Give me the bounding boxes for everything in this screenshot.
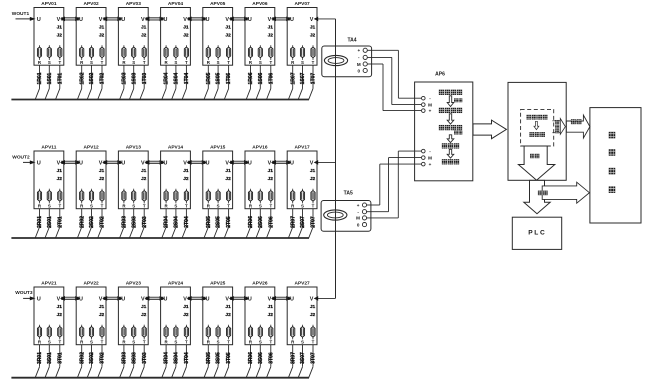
svg-text:J1: J1 [225,168,231,174]
svg-text:APV14: APV14 [168,145,184,151]
svg-text:3R04: 3R04 [164,352,170,364]
svg-text:V: V [225,17,229,23]
svg-text:T: T [312,60,315,65]
svg-text:1T07: 1T07 [311,73,317,85]
svg-text:J1: J1 [310,25,316,31]
svg-text:S: S [174,340,177,345]
svg-text:3T01: 3T01 [57,352,63,364]
svg-text:U: U [37,296,41,302]
svg-text:J1: J1 [183,25,189,31]
svg-text:1S05: 1S05 [216,72,222,84]
svg-text:T: T [185,204,188,209]
svg-text:M: M [428,155,432,160]
svg-text:3S01: 3S01 [47,352,53,364]
svg-text:APV15: APV15 [210,145,226,151]
svg-text:1S06: 1S06 [258,72,264,84]
svg-text:APV05: APV05 [210,1,226,7]
svg-text:2T05: 2T05 [226,216,232,228]
svg-text:T: T [101,204,104,209]
svg-text:S: S [48,60,51,65]
svg-text:0: 0 [357,222,360,227]
svg-text:J2: J2 [99,32,105,38]
svg-text:3T03: 3T03 [142,352,148,364]
svg-text:V: V [225,160,229,166]
svg-text:V: V [268,17,272,23]
svg-text:J2: J2 [268,312,274,318]
svg-text:2R06: 2R06 [248,216,254,228]
svg-text:S: S [301,60,304,65]
svg-text:3S03: 3S03 [131,352,137,364]
svg-text:2S03: 2S03 [131,216,137,228]
svg-text:T: T [312,340,315,345]
svg-text:J1: J1 [99,168,105,174]
svg-text:V: V [141,160,145,166]
svg-text:S: S [259,204,262,209]
svg-text:J1: J1 [141,25,147,31]
svg-text:J2: J2 [310,176,316,182]
svg-text:APV12: APV12 [83,145,99,151]
svg-text:3S05: 3S05 [216,352,222,364]
svg-text:1R03: 1R03 [122,72,128,84]
svg-text:3S06: 3S06 [258,352,264,364]
svg-text:+: + [429,108,432,113]
svg-text:T: T [312,204,315,209]
svg-text:3R05: 3R05 [206,352,212,364]
svg-text:1T02: 1T02 [100,73,106,85]
svg-text:J1: J1 [268,304,274,310]
svg-text:APV21: APV21 [41,281,57,287]
svg-text:U: U [79,160,83,166]
svg-text:U: U [163,17,167,23]
svg-text:APV22: APV22 [83,281,99,287]
svg-text:V: V [141,296,145,302]
svg-text:P L C: P L C [528,230,545,237]
svg-text:T: T [58,60,61,65]
svg-text:U: U [290,296,294,302]
svg-text:J2: J2 [141,312,147,318]
svg-text:T: T [227,204,230,209]
svg-text:2R04: 2R04 [164,216,170,228]
svg-text:V: V [310,17,314,23]
svg-text:J1: J1 [183,304,189,310]
svg-text:U: U [206,17,210,23]
svg-text:V: V [183,296,187,302]
svg-text:S: S [90,340,93,345]
svg-text:J2: J2 [268,176,274,182]
svg-text:APV16: APV16 [252,145,268,151]
svg-text:T: T [227,60,230,65]
svg-text:J1: J1 [57,168,63,174]
svg-text:J1: J1 [183,168,189,174]
svg-text:AP6: AP6 [435,72,445,78]
svg-text:APV13: APV13 [126,145,142,151]
svg-text:J1: J1 [310,304,316,310]
svg-text:J1: J1 [141,304,147,310]
svg-text:U: U [79,17,83,23]
svg-text:J1: J1 [268,25,274,31]
svg-text:APV23: APV23 [126,281,142,287]
svg-text:3T06: 3T06 [268,352,274,364]
svg-text:T: T [185,60,188,65]
svg-text:APV03: APV03 [126,1,142,7]
svg-text:J2: J2 [310,312,316,318]
svg-text:T: T [58,340,61,345]
svg-text:S: S [174,204,177,209]
svg-text:S: S [259,340,262,345]
svg-text:J2: J2 [183,312,189,318]
svg-text:J2: J2 [183,32,189,38]
svg-text:+: + [429,162,432,167]
svg-text:1S04: 1S04 [174,72,180,84]
svg-text:2R02: 2R02 [79,216,85,228]
svg-text:2T04: 2T04 [184,216,190,228]
svg-text:3T05: 3T05 [226,352,232,364]
svg-text:2S01: 2S01 [47,216,53,228]
svg-text:APV27: APV27 [294,281,310,287]
svg-text:APV01: APV01 [41,1,57,7]
svg-text:V: V [99,17,103,23]
svg-text:T: T [101,60,104,65]
svg-text:U: U [206,160,210,166]
svg-text:2R01: 2R01 [37,216,43,228]
svg-text:V: V [310,160,314,166]
svg-text:S: S [217,204,220,209]
svg-text:S: S [132,340,135,345]
svg-text:2S04: 2S04 [174,216,180,228]
svg-text:3R02: 3R02 [79,352,85,364]
svg-text:TA5: TA5 [344,191,353,197]
svg-text:U: U [290,17,294,23]
svg-text:V: V [57,160,61,166]
svg-text:3R06: 3R06 [248,352,254,364]
svg-text:3R07: 3R07 [290,352,296,364]
svg-text:+: + [357,203,360,208]
svg-text:S: S [217,340,220,345]
svg-text:WOUT1: WOUT1 [12,11,30,17]
svg-text:S: S [301,340,304,345]
svg-text:3T02: 3T02 [100,352,106,364]
svg-text:V: V [268,296,272,302]
svg-text:0: 0 [358,68,361,73]
svg-text:T: T [185,340,188,345]
svg-text:S: S [132,60,135,65]
svg-text:1T05: 1T05 [226,73,232,85]
svg-text:T: T [269,60,272,65]
svg-text:V: V [183,160,187,166]
svg-text:J1: J1 [99,304,105,310]
svg-text:1T01: 1T01 [57,73,63,85]
svg-text:S: S [132,204,135,209]
svg-text:1R04: 1R04 [164,72,170,84]
svg-text:1T04: 1T04 [184,73,190,85]
svg-text:U: U [248,160,252,166]
svg-text:U: U [290,160,294,166]
svg-text:2T07: 2T07 [311,216,317,228]
svg-text:APV26: APV26 [252,281,268,287]
svg-text:2S05: 2S05 [216,216,222,228]
svg-text:WOUT2: WOUT2 [12,155,30,161]
svg-text:J2: J2 [141,176,147,182]
svg-text:2R05: 2R05 [206,216,212,228]
svg-text:TA4: TA4 [347,38,356,44]
svg-text:V: V [57,296,61,302]
svg-text:T: T [101,340,104,345]
svg-text:V: V [57,17,61,23]
svg-text:V: V [99,296,103,302]
svg-text:V: V [141,17,145,23]
svg-text:U: U [121,296,125,302]
svg-text:3T04: 3T04 [184,352,190,364]
svg-text:3R01: 3R01 [37,352,43,364]
svg-text:T: T [143,204,146,209]
svg-text:J1: J1 [57,304,63,310]
svg-text:U: U [248,17,252,23]
svg-text:J2: J2 [99,312,105,318]
svg-text:U: U [37,160,41,166]
svg-text:APV02: APV02 [83,1,99,7]
svg-text:U: U [163,160,167,166]
svg-text:APV04: APV04 [168,1,184,7]
svg-text:V: V [310,296,314,302]
svg-text:U: U [121,17,125,23]
svg-text:J2: J2 [99,176,105,182]
svg-text:T: T [269,204,272,209]
svg-text:J1: J1 [225,304,231,310]
svg-text:2T03: 2T03 [142,216,148,228]
svg-text:U: U [79,296,83,302]
svg-text:S: S [90,60,93,65]
svg-text:T: T [143,60,146,65]
svg-text:2S06: 2S06 [258,216,264,228]
svg-text:J2: J2 [57,312,63,318]
svg-text:V: V [183,17,187,23]
svg-text:S: S [90,204,93,209]
svg-text:2R03: 2R03 [122,216,128,228]
svg-text:M: M [356,216,360,221]
svg-text:3S02: 3S02 [89,352,95,364]
svg-text:J1: J1 [225,25,231,31]
svg-text:J2: J2 [310,32,316,38]
svg-text:2T06: 2T06 [268,216,274,228]
svg-text:S: S [48,204,51,209]
svg-text:J1: J1 [310,168,316,174]
svg-text:APV24: APV24 [168,281,184,287]
svg-text:U: U [163,296,167,302]
svg-text:U: U [248,296,252,302]
svg-text:2R07: 2R07 [290,216,296,228]
svg-text:T: T [58,204,61,209]
svg-text:J2: J2 [183,176,189,182]
svg-text:3S07: 3S07 [300,352,306,364]
svg-text:J2: J2 [225,176,231,182]
svg-text:+: + [357,48,360,53]
svg-text:T: T [227,340,230,345]
svg-text:M: M [428,102,432,107]
svg-text:U: U [121,160,125,166]
svg-text:1S07: 1S07 [300,72,306,84]
svg-text:J2: J2 [57,32,63,38]
svg-text:J2: J2 [141,32,147,38]
svg-text:1S03: 1S03 [131,72,137,84]
svg-text:1R06: 1R06 [248,72,254,84]
svg-text:APV25: APV25 [210,281,226,287]
svg-text:APV07: APV07 [294,1,310,7]
svg-text:V: V [225,296,229,302]
svg-text:APV17: APV17 [294,145,310,151]
svg-text:S: S [217,60,220,65]
svg-text:APV11: APV11 [41,145,56,151]
svg-text:1S02: 1S02 [89,72,95,84]
svg-text:J2: J2 [225,32,231,38]
svg-text:2T02: 2T02 [100,216,106,228]
svg-text:1T03: 1T03 [142,73,148,85]
svg-text:1S01: 1S01 [47,72,53,84]
svg-text:V: V [268,160,272,166]
svg-text:S: S [48,340,51,345]
svg-text:J1: J1 [99,25,105,31]
svg-text:J1: J1 [141,168,147,174]
svg-text:J2: J2 [268,32,274,38]
svg-text:1R01: 1R01 [37,72,43,84]
svg-text:T: T [269,340,272,345]
svg-text:J1: J1 [268,168,274,174]
svg-text:2T01: 2T01 [57,216,63,228]
svg-text:1T06: 1T06 [268,73,274,85]
svg-text:U: U [37,17,41,23]
svg-text:J2: J2 [57,176,63,182]
svg-text:2S07: 2S07 [300,216,306,228]
svg-text:S: S [174,60,177,65]
svg-text:2S02: 2S02 [89,216,95,228]
svg-text:1R05: 1R05 [206,72,212,84]
svg-text:1R07: 1R07 [290,72,296,84]
svg-text:U: U [206,296,210,302]
svg-text:J2: J2 [225,312,231,318]
svg-text:1R02: 1R02 [79,72,85,84]
svg-text:S: S [259,60,262,65]
svg-text:3R03: 3R03 [122,352,128,364]
svg-text:S: S [301,204,304,209]
svg-text:3S04: 3S04 [174,352,180,364]
svg-text:T: T [143,340,146,345]
svg-text:V: V [99,160,103,166]
svg-text:WOUT3: WOUT3 [15,290,33,296]
svg-text:J1: J1 [57,25,63,31]
svg-text:M: M [357,62,361,67]
svg-text:3T07: 3T07 [311,352,317,364]
svg-text:APV06: APV06 [252,1,268,7]
